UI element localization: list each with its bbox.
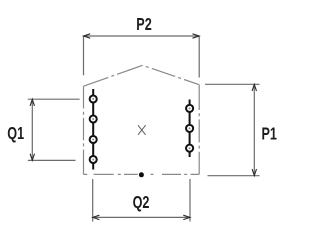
- dimension P1: dimension line: [253, 84, 255, 175]
- dimension Q1: extension line top: [28, 98, 80, 100]
- right pin 2: [186, 125, 193, 132]
- outline left edge (dash-dot): [83, 86, 85, 174]
- svg-text:Q1: Q1: [7, 124, 24, 144]
- outline top-left slope (dash-dot): [84, 65, 143, 86]
- left pin 1: [90, 95, 97, 102]
- outline top-right slope (dash-dot): [146, 66, 199, 84]
- dimension Q1: top arrowhead: [30, 99, 34, 106]
- dimension Q1: dimension line: [31, 99, 33, 160]
- dimension P1: extension line bottom: [208, 175, 260, 177]
- dimension Q2: extension line right: [189, 179, 191, 222]
- svg-text:P2: P2: [136, 15, 151, 35]
- dimension P1: extension line top: [205, 83, 260, 85]
- dimension P2: extension line left: [83, 36, 85, 75]
- dimension P2: right arrowhead: [193, 34, 200, 38]
- center cross mark: [138, 125, 146, 135]
- dimension Q2: dimension line: [93, 216, 190, 218]
- center dot on bottom edge: [139, 172, 144, 177]
- left pin column wire: [92, 89, 94, 170]
- outline right edge (dash-dot): [198, 85, 200, 175]
- right pin 1: [186, 105, 193, 112]
- right pin 3: [186, 145, 193, 152]
- left pin 3: [90, 136, 97, 143]
- dimension Q1: extension line bottom: [28, 159, 76, 161]
- outline bottom edge (dash-dot): [84, 173, 200, 175]
- svg-text:P1: P1: [261, 124, 277, 144]
- dimension P2: dimension line: [84, 35, 200, 37]
- dimension Q1: bottom arrowhead: [30, 154, 34, 161]
- svg-text:Q2: Q2: [133, 193, 150, 213]
- dimension P1: top arrowhead: [252, 84, 256, 91]
- right pin column wire: [189, 100, 191, 158]
- dimension Q2: extension line left: [92, 179, 94, 222]
- dimension P2: left arrowhead: [84, 34, 91, 38]
- dimension Q2: right arrowhead: [183, 215, 190, 219]
- left pin 4: [90, 156, 97, 163]
- dimension Q2: left arrowhead: [93, 215, 100, 219]
- dimension P2: extension line right: [198, 36, 200, 78]
- dimension P1: bottom arrowhead: [252, 169, 256, 176]
- left pin 2: [90, 115, 97, 122]
